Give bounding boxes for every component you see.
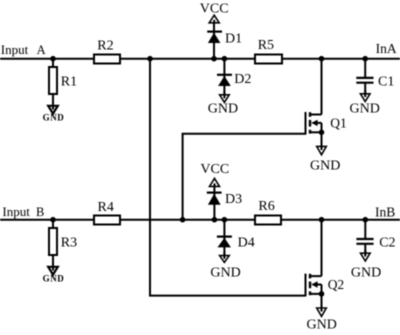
- svg-text:InA: InA: [376, 41, 397, 56]
- svg-text:D1: D1: [225, 32, 242, 47]
- svg-text:GND: GND: [307, 318, 337, 333]
- svg-text:A: A: [37, 43, 46, 57]
- junction dot D2 on top rail: [222, 56, 228, 62]
- svg-text:GND: GND: [43, 274, 65, 284]
- svg-text:R2: R2: [97, 38, 113, 53]
- svg-text:GND: GND: [43, 113, 65, 123]
- wire bottom rail segment 1: [0, 219, 94, 221]
- svg-text:R6: R6: [258, 199, 274, 214]
- svg-text:GND: GND: [208, 102, 238, 117]
- svg-text:D3: D3: [225, 192, 242, 207]
- resistor R5: [255, 38, 282, 64]
- ground under Q2: [307, 294, 337, 333]
- svg-text:C1: C1: [378, 74, 394, 89]
- junction dot top rail to Q2 gate line: [147, 56, 153, 62]
- diode D4: [217, 220, 255, 259]
- svg-text:GND: GND: [210, 266, 240, 281]
- ground under Q1: [310, 132, 340, 173]
- wire top rail segment 1: [0, 58, 94, 60]
- capacitor C1: [356, 59, 394, 97]
- junction dot D4 on bottom rail: [222, 217, 228, 223]
- junction dot Q2 drain on bottom rail: [319, 217, 325, 223]
- svg-text:R1: R1: [61, 75, 77, 90]
- resistor R6: [255, 199, 281, 224]
- svg-text:VCC: VCC: [200, 162, 229, 177]
- ground under D4: [210, 252, 240, 281]
- junction dot D3 on bottom rail: [212, 217, 218, 223]
- junction dot D1 on top rail: [211, 56, 217, 62]
- node Input A label: [1, 42, 46, 57]
- diode D3: [207, 192, 242, 207]
- svg-text:R4: R4: [98, 200, 114, 215]
- svg-text:R3: R3: [61, 236, 77, 251]
- svg-text:R5: R5: [258, 38, 274, 53]
- svg-text:InB: InB: [375, 204, 395, 219]
- power VCC top: [200, 2, 229, 59]
- junction dot C1 on top rail: [362, 56, 368, 62]
- ground under C1: [350, 90, 380, 117]
- svg-text:C2: C2: [379, 236, 395, 251]
- wire from top rail down to Q2 gate: [150, 59, 306, 296]
- wire top rail segment 3: [281, 58, 400, 60]
- junction dot node A: [50, 56, 56, 62]
- svg-text:Q2: Q2: [328, 277, 345, 292]
- resistor R4: [94, 200, 120, 225]
- resistor R3: [49, 220, 77, 255]
- power VCC bottom: [200, 162, 229, 220]
- wire top rail segment 2: [120, 58, 255, 60]
- diode D2: [217, 59, 251, 99]
- svg-text:Q1: Q1: [330, 115, 347, 130]
- svg-text:GND: GND: [350, 102, 380, 117]
- ground under R3: [43, 255, 65, 284]
- node Input B label: [2, 204, 44, 219]
- junction dot Q1 drain on top rail: [319, 56, 325, 62]
- junction dot bottom rail to Q1 gate line: [180, 217, 186, 223]
- ground under C2: [351, 250, 381, 280]
- junction dot C2 on bottom rail: [363, 217, 369, 223]
- resistor R1: [49, 59, 77, 94]
- svg-text:GND: GND: [310, 158, 340, 173]
- svg-text:D4: D4: [238, 236, 255, 251]
- diode D1: [207, 32, 242, 47]
- transistor Q2: [306, 220, 345, 297]
- svg-text:B: B: [36, 205, 44, 219]
- svg-text:GND: GND: [351, 265, 381, 280]
- wire bottom rail segment 3: [280, 219, 400, 221]
- ground under R1: [43, 94, 65, 123]
- svg-text:Input: Input: [2, 204, 30, 219]
- transistor Q1: [306, 59, 347, 135]
- capacitor C2: [356, 220, 395, 257]
- wire Q1 gate from input B divider: [183, 134, 306, 220]
- resistor R2: [94, 38, 120, 63]
- svg-text:Input: Input: [1, 42, 29, 57]
- junction dot node B: [50, 217, 56, 223]
- ground under D2: [208, 91, 238, 117]
- wire bottom rail segment 2: [120, 219, 255, 221]
- svg-text:D2: D2: [234, 72, 251, 87]
